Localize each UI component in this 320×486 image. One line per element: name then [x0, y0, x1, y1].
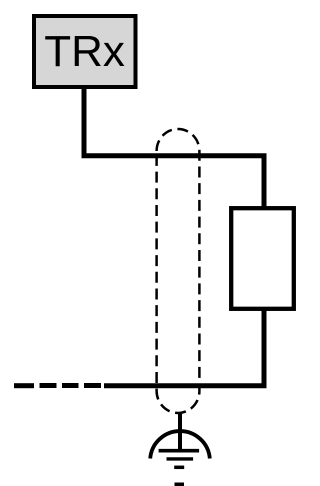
svg-text:TRx: TRx: [44, 27, 125, 76]
